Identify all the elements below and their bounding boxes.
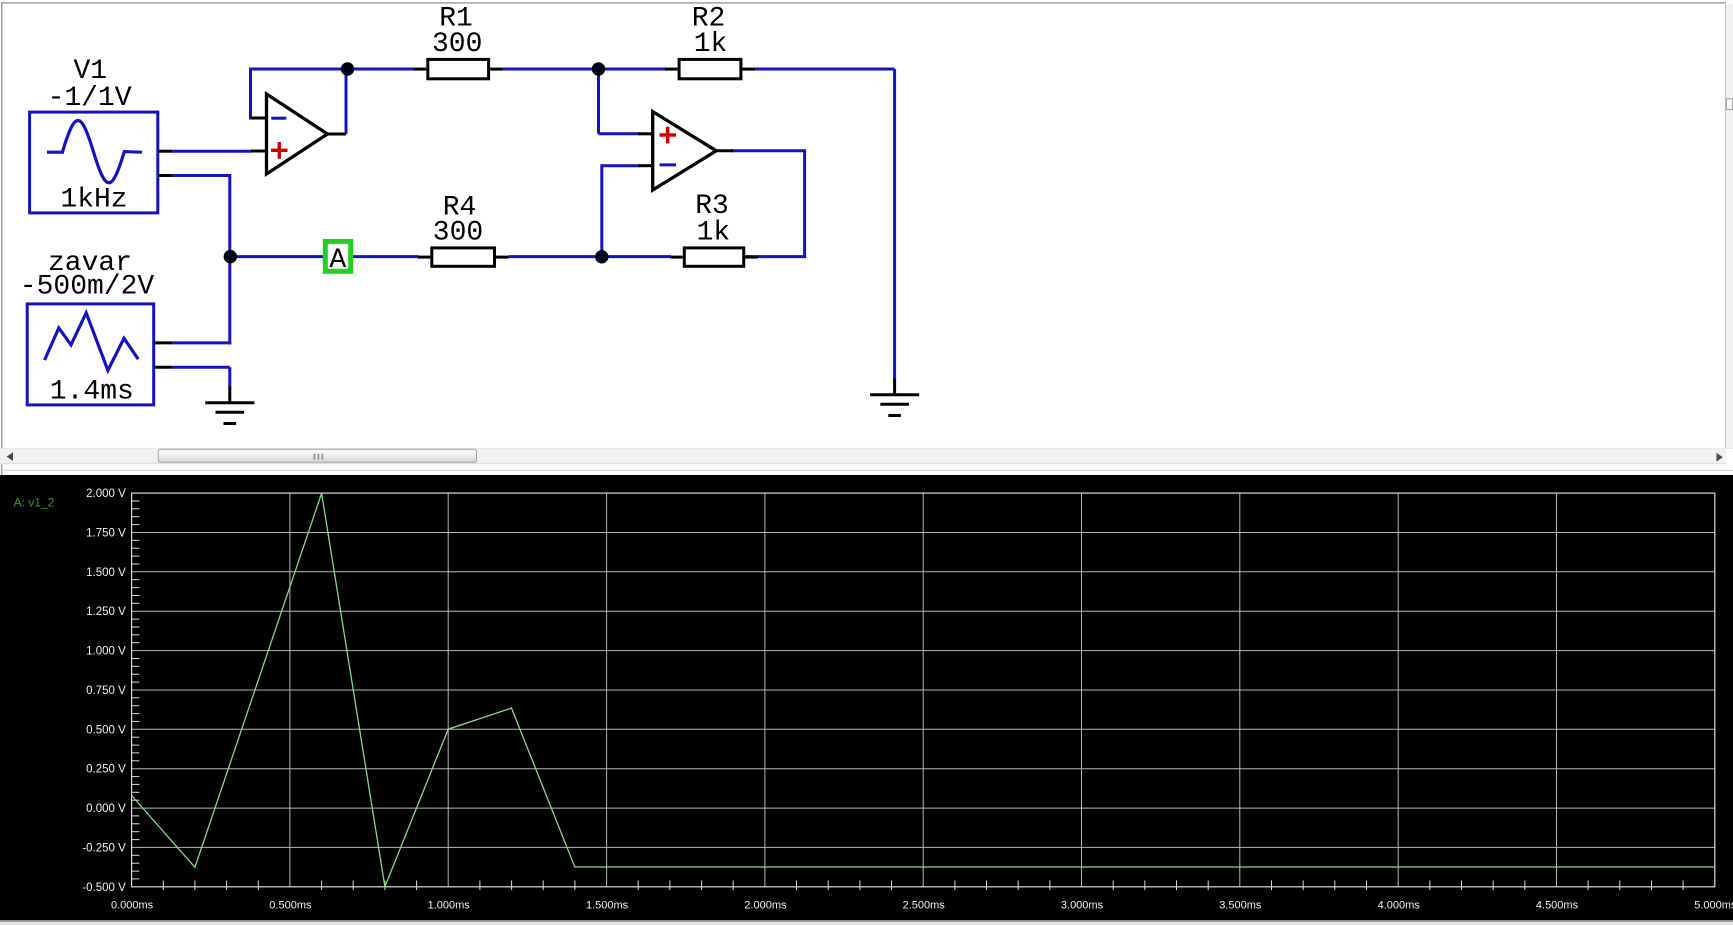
wire zavar+ segment (172, 341, 232, 344)
scrollbar right arrow (1717, 453, 1723, 462)
R1 left lead (414, 68, 427, 71)
R1 right lead (490, 68, 503, 71)
svg-text:0.500 V: 0.500 V (86, 724, 126, 736)
svg-text:3.500ms: 3.500ms (1219, 900, 1262, 912)
zavar pin stub top (154, 341, 172, 344)
wire zavar- segment (172, 366, 230, 369)
svg-text:1.500ms: 1.500ms (586, 900, 629, 912)
svg-text:2.500ms: 2.500ms (903, 900, 946, 912)
U1 inverting pin stub (249, 117, 266, 120)
U2 plus marking (660, 127, 677, 144)
R2 left lead (665, 68, 678, 71)
svg-text:2.000 V: 2.000 V (86, 488, 126, 500)
svg-text:-500m/2V: -500m/2V (20, 271, 155, 302)
wire U2 inverting input horizontal (602, 164, 640, 167)
wire probe A to R4 (353, 255, 419, 258)
U2 inverting pin stub (638, 164, 653, 167)
svg-text:0.000 V: 0.000 V (86, 803, 126, 815)
svg-text:300: 300 (432, 29, 482, 60)
wire R4 to node N3 (509, 255, 603, 258)
resistor R2 body (679, 59, 741, 78)
schematic viewport left border (1, 2, 2, 920)
R4 left lead (418, 256, 431, 259)
scope x-axis minor ticks (163, 881, 1683, 891)
node N2 junction (592, 62, 605, 75)
wire node N1 to R1 (348, 68, 415, 71)
scope time axis labels (111, 900, 1733, 912)
wire V1- right segment (172, 174, 230, 177)
node A junction (224, 250, 237, 263)
voltage source V1 box (30, 112, 158, 213)
svg-text:4.500ms: 4.500ms (1536, 900, 1579, 912)
U1 minus marking (271, 117, 286, 120)
probe A box (325, 241, 350, 271)
svg-text:1k: 1k (694, 29, 728, 60)
wire U1 feedback vertical (249, 68, 252, 118)
wire U2 inverting input vertical to node N3 (600, 164, 603, 256)
resistor R3 body (684, 248, 743, 266)
wire zavar- down to ground (228, 367, 231, 387)
wire R2 to right corner (754, 68, 895, 71)
wire R1 to node N2 (503, 68, 600, 71)
zavar pin stub bottom (154, 366, 172, 369)
schematic viewport top border (2, 2, 1726, 3)
svg-text:300: 300 (433, 217, 483, 248)
wire R3 right to feedback corner (745, 255, 804, 258)
wire vertical V1- to zavar+ (through node A) (228, 174, 231, 344)
wire U1 output vertical up (345, 69, 348, 134)
svg-text:1.500 V: 1.500 V (86, 567, 126, 579)
oscilloscope panel background (0, 475, 1733, 920)
svg-text:A: A (329, 245, 346, 276)
wire U1 feedback top horizontal (249, 68, 347, 71)
R3 right lead (745, 256, 758, 259)
svg-text:1k: 1k (696, 217, 730, 248)
svg-text:0.250 V: 0.250 V (86, 764, 126, 776)
wire right vertical to ground (893, 69, 896, 381)
svg-text:-0.500 V: -0.500 V (82, 882, 126, 894)
op-amp U2 body (653, 112, 717, 190)
U1 plus marking (271, 142, 288, 159)
svg-text:1.000 V: 1.000 V (86, 646, 126, 658)
vertical scrollbar thumb (1726, 99, 1732, 110)
scope trace A (v1_2) (132, 493, 1715, 886)
svg-text:0.500ms: 0.500ms (269, 900, 312, 912)
U2 output pin stub (716, 149, 733, 152)
svg-text:2.000ms: 2.000ms (744, 900, 787, 912)
wire U2 output to feedback corner (732, 149, 807, 152)
U2 noninverting pin stub (638, 132, 653, 135)
R3 left lead (670, 256, 683, 259)
svg-text:1.750 V: 1.750 V (86, 528, 126, 540)
U1 output pin stub (328, 133, 347, 136)
wire to U2 noninverting input (599, 132, 640, 135)
scope y-axis minor ticks (132, 501, 140, 879)
vertical scrollbar track (1726, 4, 1733, 448)
wire node A to probe A (230, 255, 324, 258)
svg-text:4.000ms: 4.000ms (1378, 900, 1421, 912)
svg-text:5.000ms: 5.000ms (1694, 900, 1733, 912)
svg-text:0.750 V: 0.750 V (86, 685, 126, 697)
svg-text:1kHz: 1kHz (60, 184, 127, 215)
R2 right lead (742, 68, 755, 71)
node N1 junction (341, 62, 354, 75)
U2 minus marking (660, 163, 677, 166)
scope grid vertical lines (290, 493, 1557, 887)
scrollbar left arrow (7, 452, 13, 461)
horizontal scrollbar track (0, 447, 1733, 450)
svg-text:0.000ms: 0.000ms (111, 900, 154, 912)
scrollbar thumb grip (314, 454, 324, 460)
ground symbol (left, below zavar) (205, 387, 254, 424)
U1 noninverting pin stub (251, 150, 267, 153)
separator line above scope (0, 470, 1733, 471)
wire node N3 to R3 (602, 255, 671, 258)
svg-text:-0.250 V: -0.250 V (82, 842, 126, 854)
wire node N2 down (597, 68, 600, 134)
svg-text:1.4ms: 1.4ms (50, 377, 134, 408)
zavar waveform symbol (45, 313, 139, 371)
V1 sine symbol (47, 120, 142, 182)
wire V1+ to op-amp U1 noninverting input (172, 150, 252, 153)
svg-text:1.000ms: 1.000ms (428, 900, 471, 912)
scope grid horizontal lines (132, 533, 1715, 848)
V1 pin stub top (158, 150, 172, 153)
svg-text:A: v1_2: A: v1_2 (14, 495, 55, 509)
R4 right lead (496, 256, 509, 259)
scope plot border (132, 493, 1715, 887)
window bottom border (0, 920, 1733, 922)
svg-text:1.250 V: 1.250 V (86, 606, 126, 618)
voltage source zavar box (27, 304, 154, 405)
V1 pin stub bottom (158, 174, 172, 177)
svg-text:-1/1V: -1/1V (48, 83, 132, 114)
scope voltage axis labels (82, 488, 126, 894)
resistor R1 body (428, 59, 489, 78)
resistor R4 body (432, 248, 495, 266)
ground symbol (right, output) (870, 379, 919, 416)
schematic viewport right border (1725, 2, 1726, 448)
svg-text:3.000ms: 3.000ms (1061, 900, 1104, 912)
op-amp U1 body (267, 94, 328, 174)
wire node N2 to R2 (599, 68, 667, 71)
node N3 junction (595, 250, 608, 263)
wire U2 output feedback vertical (803, 151, 806, 258)
